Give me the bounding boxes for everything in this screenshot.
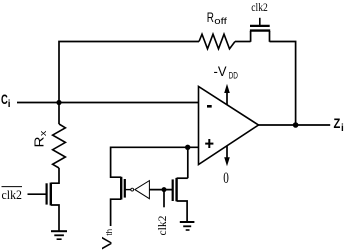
svg-text:Z: Z	[334, 115, 341, 131]
svg-text:off: off	[214, 16, 227, 27]
svg-text:clk2: clk2	[251, 0, 267, 14]
svg-text:-V: -V	[214, 63, 228, 79]
svg-text:clk2: clk2	[155, 216, 169, 236]
svg-text:V: V	[98, 236, 114, 250]
svg-text:i: i	[341, 123, 344, 134]
svg-text:clk2: clk2	[2, 187, 23, 202]
svg-text:R: R	[32, 137, 47, 148]
svg-text:DD: DD	[229, 70, 239, 80]
svg-text:R: R	[207, 9, 214, 25]
svg-text:i: i	[8, 99, 11, 110]
svg-text:0: 0	[223, 170, 229, 187]
svg-text:th: th	[105, 229, 114, 236]
svg-text:C: C	[1, 91, 8, 107]
svg-text:x: x	[38, 130, 48, 136]
